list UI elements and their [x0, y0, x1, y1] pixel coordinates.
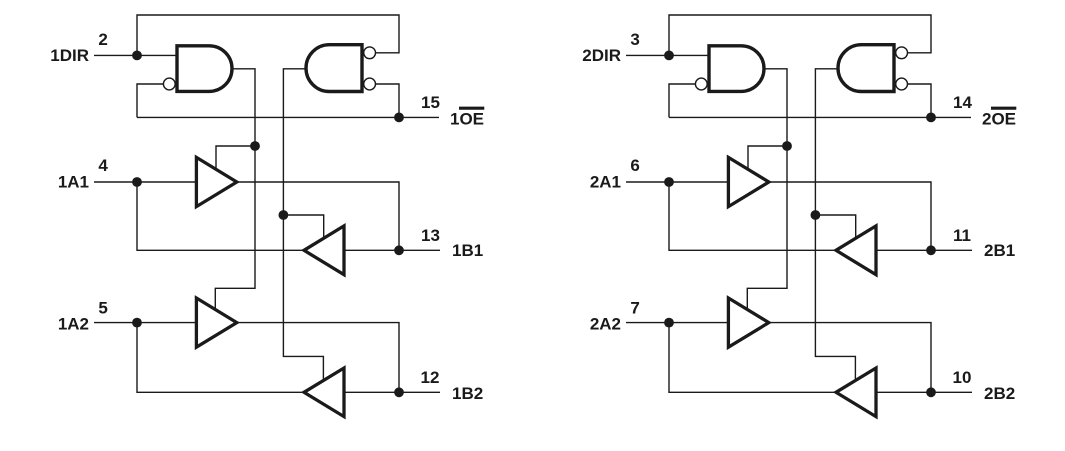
svg-text:4: 4	[98, 156, 108, 175]
wire G2B output enable bus (to B-buffers)	[815, 69, 855, 383]
inverting bubble on G1B lower input	[364, 78, 376, 90]
enable bus A junction	[250, 141, 260, 151]
wire G1B output enable bus (to B-buffers)	[283, 69, 323, 383]
overbar over OE	[459, 107, 484, 110]
node 1A2 junction	[132, 318, 142, 328]
svg-text:1OE: 1OE	[450, 110, 484, 129]
wire 1A1 input lead (pin 4)	[94, 181, 196, 183]
svg-text:2B1: 2B1	[984, 241, 1015, 260]
buffer 1B1 (B to A, points left)	[304, 226, 344, 275]
buffer 1A1 (A to B, points right)	[196, 157, 236, 206]
buffer 2B2 (B to A, points left)	[836, 368, 876, 417]
svg-text:1DIR: 1DIR	[50, 46, 89, 65]
wire G1A output enable bus (to A-buffers)	[215, 69, 255, 312]
node 1B2 junction	[394, 387, 404, 397]
wire buffer 2A2 output to 2B2	[769, 323, 931, 393]
svg-text:2B2: 2B2	[984, 384, 1015, 403]
buffer 2A1 (A to B, points right)	[728, 157, 768, 206]
svg-text:10: 10	[953, 368, 972, 387]
wire buffer 2A1 output to 2B1	[769, 182, 931, 250]
wire enable tap to buffer 1B1	[283, 215, 323, 241]
svg-text:2: 2	[98, 30, 107, 49]
wire 2A2 input lead (pin 7)	[626, 322, 728, 324]
buffer 2B1 (B to A, points left)	[836, 226, 876, 275]
node 2OE junction	[926, 113, 936, 123]
svg-text:6: 6	[630, 156, 639, 175]
svg-text:14: 14	[953, 93, 972, 112]
node 2A1 junction	[664, 177, 674, 187]
wire DIR feedback: node 2DIR up and over to G2B top bubble	[669, 15, 931, 55]
AND gate G1B (mirrored, both inputs inverted)	[306, 45, 362, 92]
wire enable tap to buffer 1A1	[216, 146, 255, 172]
wire 2A1 input lead (pin 6)	[626, 181, 728, 183]
wire 1B2 line (pin 12)	[344, 391, 440, 393]
wire G1B lower bubble to 1OE junction	[376, 84, 399, 117]
svg-text:3: 3	[630, 30, 639, 49]
svg-text:1B1: 1B1	[452, 241, 483, 260]
svg-text:12: 12	[421, 368, 440, 387]
inverting bubble on G2B upper input	[896, 47, 908, 59]
enable bus B junction	[279, 210, 289, 220]
node 1A1 junction	[132, 177, 142, 187]
channel 1 (left half)	[50, 15, 484, 417]
enable bus B junction	[811, 210, 821, 220]
svg-text:13: 13	[421, 226, 440, 245]
wire G2A lower input from 2OE line	[669, 84, 695, 117]
svg-text:5: 5	[98, 299, 107, 318]
AND gate G1A (DIR enable, inverted lower input)	[177, 46, 232, 92]
wire 1DIR input lead (pin 2)	[94, 54, 177, 56]
wire enable tap to buffer 2B1	[815, 215, 855, 241]
svg-text:2OE: 2OE	[982, 110, 1016, 129]
wire buffer 1B1 output back to node 1A1	[137, 182, 304, 250]
wire 2DIR input lead (pin 3)	[626, 54, 709, 56]
inverting bubble on G2A lower input	[695, 78, 707, 90]
wire enable tap to buffer 2A1	[748, 146, 787, 172]
svg-text:2DIR: 2DIR	[582, 46, 621, 65]
wire G1A lower input from 1OE line	[137, 84, 163, 117]
node 2A2 junction	[664, 318, 674, 328]
svg-text:1A1: 1A1	[58, 173, 89, 192]
wire buffer 2B1 output back to node 2A1	[669, 182, 836, 250]
node 2B1 junction	[926, 245, 936, 255]
svg-text:11: 11	[953, 226, 971, 245]
wire 2B2 line (pin 10)	[876, 391, 972, 393]
inverting bubble on G1B upper input	[364, 47, 376, 59]
enable bus A junction	[782, 141, 792, 151]
inverting bubble on G2B lower input	[896, 78, 908, 90]
svg-text:2A1: 2A1	[590, 173, 621, 192]
overbar over OE	[991, 107, 1016, 110]
buffer 1B2 (B to A, points left)	[304, 368, 344, 417]
wire buffer 1B2 output back to node 1A2	[137, 323, 304, 393]
node 1OE junction	[394, 113, 404, 123]
inverting bubble on G1A lower input	[163, 78, 175, 90]
AND gate G2B (mirrored, both inputs inverted)	[838, 45, 894, 92]
node 2B2 junction	[926, 387, 936, 397]
wire buffer 1A2 output to 1B2	[237, 323, 399, 393]
svg-text:15: 15	[421, 93, 440, 112]
channel 2 (right half)	[582, 15, 1016, 417]
svg-text:2A2: 2A2	[590, 315, 621, 334]
wire buffer 1A1 output to 1B1	[237, 182, 399, 250]
wire 1A2 input lead (pin 5)	[94, 322, 196, 324]
wire DIR feedback: node 1DIR up and over to G1B top bubble	[137, 15, 399, 55]
svg-text:7: 7	[630, 299, 639, 318]
buffer 1A2 (A to B, points right)	[196, 298, 236, 347]
wire G2B lower bubble to 2OE junction	[908, 84, 931, 117]
svg-text:1A2: 1A2	[58, 315, 89, 334]
AND gate G2A (DIR enable, inverted lower input)	[709, 46, 764, 92]
node 2DIR junction	[664, 51, 674, 61]
node 1B1 junction	[394, 245, 404, 255]
wire G2A output enable bus (to A-buffers)	[747, 69, 787, 312]
buffer 2A2 (A to B, points right)	[728, 298, 768, 347]
wire buffer 2B2 output back to node 2A2	[669, 323, 836, 393]
wire 1OE line (pin 15)	[137, 116, 439, 118]
wire 1B1 line (pin 13)	[344, 249, 440, 251]
node 1DIR junction	[132, 51, 142, 61]
wire 2B1 line (pin 11)	[876, 249, 972, 251]
svg-text:1B2: 1B2	[452, 384, 483, 403]
wire 2OE line (pin 14)	[669, 116, 971, 118]
